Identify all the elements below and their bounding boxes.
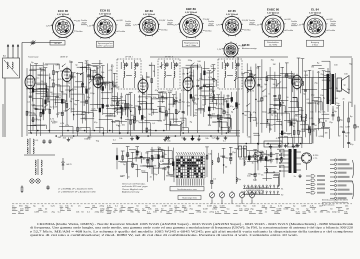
wire [212, 65, 214, 111]
svg-text:4,7k: 4,7k [104, 84, 108, 86]
svg-text:1k: 1k [28, 111, 30, 113]
resistor [97, 81, 99, 85]
svg-text:OA 70: OA 70 [66, 163, 72, 166]
wire [273, 176, 279, 178]
svg-text:Drehko: Drehko [81, 19, 87, 22]
bus wire [112, 143, 312, 145]
wire [195, 109, 204, 111]
switch contact [81, 72, 84, 75]
svg-text:220V~ gemessen: 220V~ gemessen [97, 45, 113, 47]
wire [45, 68, 47, 111]
wire [150, 149, 164, 151]
capacitor [312, 123, 315, 125]
svg-text:1M: 1M [273, 64, 276, 66]
wire [21, 43, 23, 138]
svg-text:10k: 10k [256, 68, 259, 70]
coil [212, 160, 213, 164]
wire [158, 148, 163, 150]
switch contact [67, 108, 70, 111]
svg-text:S1: S1 [281, 188, 283, 190]
ground [225, 136, 227, 138]
wire [116, 111, 122, 113]
electrolytic capacitor [82, 84, 84, 87]
wire [52, 65, 54, 110]
wire [325, 70, 330, 72]
svg-text:Drehko: Drehko [208, 20, 214, 23]
wire [291, 136, 302, 138]
wire [102, 97, 110, 99]
wire [130, 93, 132, 136]
wire [312, 100, 318, 102]
svg-text:1,2V: 1,2V [217, 49, 222, 51]
electrolytic capacitor [99, 76, 101, 79]
wire [140, 152, 142, 162]
svg-text:Drehko: Drehko [125, 20, 131, 23]
wire [79, 127, 90, 129]
svg-text:LT = NORMAL ZF = Bandbreite: LT = NORMAL ZF = Bandbreite 9 kHz [58, 188, 94, 191]
wire [162, 163, 174, 165]
wire [158, 148, 160, 174]
socket ECH 81 note box [97, 41, 114, 47]
node [246, 143, 248, 145]
svg-text:10k: 10k [247, 77, 250, 79]
resistor [220, 116, 222, 120]
wire [186, 64, 198, 66]
svg-text:2n: 2n [300, 117, 302, 119]
svg-text:10,7 MHz: 10,7 MHz [269, 44, 278, 46]
wire [93, 65, 97, 67]
wire [92, 62, 103, 64]
wire [253, 132, 259, 134]
wire [293, 97, 298, 99]
capacitor [46, 186, 49, 188]
wire [306, 129, 311, 131]
wire [225, 97, 231, 99]
resistor [217, 115, 219, 119]
capacitor [212, 78, 215, 80]
wire [284, 75, 295, 77]
wire [314, 97, 321, 99]
wire [266, 71, 268, 128]
wire [138, 101, 147, 103]
resistor [130, 120, 132, 124]
svg-text:Ant: Ant [3, 55, 6, 58]
wire [151, 62, 153, 116]
wire [111, 121, 127, 123]
wire [270, 147, 272, 163]
node [30, 132, 32, 134]
svg-text:LT = GEDRÜCKT ZF = Bandbreite: LT = GEDRÜCKT ZF = Bandbreite 5 kHz [58, 191, 97, 194]
ground [292, 144, 294, 146]
capacitor [165, 114, 168, 116]
wire [337, 106, 339, 136]
svg-text:Drehko: Drehko [205, 30, 212, 32]
svg-text:10k: 10k [119, 138, 122, 140]
resistor [53, 71, 55, 75]
svg-text:4,7k: 4,7k [110, 105, 114, 107]
wire [322, 88, 329, 90]
svg-text:943 MC: 943 MC [54, 43, 61, 45]
switch contact [117, 101, 120, 104]
wire [201, 90, 214, 92]
svg-text:EM 80: EM 80 [242, 43, 250, 47]
wire [182, 69, 184, 131]
resistor [132, 163, 134, 167]
wire [89, 78, 101, 80]
resistor [265, 157, 267, 161]
wire [61, 71, 63, 137]
wire [115, 107, 123, 109]
tube socket EF 89 [138, 15, 160, 37]
wire [276, 154, 278, 164]
wire [209, 116, 220, 118]
wire [31, 65, 43, 67]
switch column labels [177, 179, 178, 186]
wire [80, 67, 90, 69]
wire [117, 92, 119, 114]
wire [208, 71, 210, 125]
wire [165, 94, 167, 131]
wire [258, 66, 260, 143]
ground [164, 137, 166, 139]
wire [161, 92, 163, 103]
wire [139, 122, 151, 124]
capacitor [259, 156, 262, 158]
svg-text:280pF: 280pF [291, 24, 297, 26]
wire [321, 126, 330, 128]
wire [312, 70, 314, 143]
svg-text:4,7k: 4,7k [50, 119, 54, 121]
resistor [269, 109, 271, 113]
switch contact [181, 122, 184, 125]
resistor [151, 155, 153, 159]
wire [277, 148, 284, 150]
svg-text:1k: 1k [275, 115, 277, 117]
switch contact [160, 64, 163, 67]
wire [82, 112, 94, 114]
tube ECC85b [62, 68, 72, 81]
wire [36, 108, 50, 110]
wire [47, 86, 53, 88]
wire [147, 152, 149, 168]
capacitor [182, 111, 185, 113]
wire [223, 95, 225, 117]
wire [215, 108, 222, 110]
wire [42, 63, 44, 121]
wire [100, 81, 113, 83]
svg-text:gegen Chassis: gegen Chassis [322, 205, 335, 207]
svg-text:10k: 10k [328, 80, 331, 82]
electrolytic capacitor [260, 157, 262, 160]
wire [201, 79, 216, 81]
electrolytic capacitor [354, 125, 356, 128]
wire [281, 67, 283, 143]
wire [208, 115, 220, 117]
capacitor [175, 100, 178, 102]
wire [268, 112, 278, 114]
wire [2, 104, 4, 137]
switch contact [98, 83, 101, 86]
switch contact [212, 70, 215, 73]
capacitor [35, 108, 38, 110]
wire [322, 60, 331, 62]
socket ECC 85 note [50, 41, 65, 46]
svg-text:1,2V: 1,2V [133, 25, 138, 27]
wire [102, 66, 104, 115]
node [218, 130, 220, 132]
wire [272, 78, 277, 80]
svg-text:10k: 10k [61, 92, 64, 94]
wire [37, 74, 43, 76]
resistor [236, 103, 238, 107]
electrolytic capacitor [254, 173, 256, 176]
electrolytic capacitor [70, 75, 72, 78]
svg-text:4 Watt: 4 Watt [312, 43, 318, 46]
svg-text:Drehko: Drehko [330, 20, 336, 23]
resistor [66, 103, 68, 107]
wire [149, 64, 155, 66]
antenna terminals [7, 46, 9, 58]
capacitor [293, 82, 296, 84]
wire [270, 107, 276, 109]
wire [159, 93, 161, 120]
wire [266, 118, 280, 120]
wire [255, 64, 257, 121]
svg-text:0,5M: 0,5M [345, 133, 350, 135]
node [255, 99, 257, 101]
svg-text:1M: 1M [280, 137, 283, 139]
wire [4, 78, 6, 137]
resistor [122, 156, 124, 160]
wire [332, 109, 334, 121]
svg-text:2n: 2n [294, 176, 296, 178]
wire [94, 103, 102, 105]
wire [26, 68, 28, 136]
svg-text:2n: 2n [167, 172, 169, 174]
wire [311, 78, 313, 144]
node [40, 112, 42, 114]
capacitor [120, 106, 123, 108]
coil [318, 119, 319, 123]
svg-text:Chassis. Abgleich siehe: Chassis. Abgleich siehe [122, 188, 144, 191]
wire [99, 119, 113, 121]
wire [351, 58, 353, 107]
coil [247, 88, 248, 92]
coil [112, 81, 113, 85]
svg-text:1k: 1k [252, 162, 254, 164]
svg-text:meßsender 30% mod. gegen: meßsender 30% mod. gegen [122, 186, 149, 188]
electrolytic capacitor [261, 98, 263, 101]
resistor [218, 158, 220, 162]
loudspeaker [337, 78, 342, 91]
wire [160, 164, 171, 166]
ground [270, 144, 272, 146]
capacitor [146, 158, 149, 160]
wire [323, 71, 325, 138]
wire [153, 109, 158, 111]
wire [77, 66, 87, 68]
wire [290, 71, 292, 137]
svg-text:1M: 1M [346, 209, 349, 211]
wire [319, 118, 329, 120]
wire [139, 96, 152, 98]
wire [34, 89, 49, 91]
tube socket [223, 41, 240, 58]
wire [36, 93, 47, 95]
electrolytic capacitor block [239, 146, 242, 157]
wire [209, 96, 224, 98]
wire [140, 165, 153, 167]
svg-text:15k: 15k [322, 112, 325, 114]
wire [116, 148, 118, 170]
resistor [134, 119, 136, 123]
capacitor [161, 95, 164, 97]
svg-text:0,5M: 0,5M [158, 120, 163, 122]
wire [134, 94, 136, 131]
wire [264, 172, 280, 174]
resistor [141, 115, 143, 119]
wire [168, 103, 176, 105]
wire [169, 118, 178, 120]
resistor [323, 122, 325, 126]
coil [280, 102, 281, 106]
capacitor [222, 155, 225, 157]
node [49, 77, 51, 79]
svg-text:10k: 10k [289, 150, 292, 152]
wire [198, 107, 204, 109]
trimmer capacitor [32, 40, 34, 45]
svg-text:1M: 1M [187, 106, 190, 108]
wire [202, 68, 209, 70]
wire [293, 73, 295, 144]
wire [151, 111, 158, 113]
coil [305, 114, 306, 118]
svg-text:0,5M: 0,5M [301, 206, 306, 208]
wire [205, 95, 212, 97]
node [127, 132, 129, 134]
svg-text:0,5M: 0,5M [303, 120, 308, 122]
wire [288, 78, 292, 80]
switch contact [247, 103, 250, 106]
wire [111, 104, 122, 106]
wire [295, 114, 301, 116]
svg-text:10k: 10k [194, 115, 197, 117]
wire [161, 150, 172, 152]
svg-text:EL 84: EL 84 [311, 7, 319, 11]
svg-text:2n: 2n [41, 70, 43, 72]
ground [166, 136, 168, 138]
node [37, 130, 39, 132]
svg-text:ECC 85: ECC 85 [58, 9, 69, 13]
svg-text:0,5M: 0,5M [34, 212, 39, 214]
wire [161, 111, 166, 113]
capacitor [127, 107, 130, 109]
resistor [208, 107, 210, 111]
wire [76, 113, 85, 115]
wire [214, 99, 227, 101]
wire [135, 156, 150, 158]
capacitor [167, 166, 170, 168]
tube socket ECH 81 [93, 14, 118, 38]
wire [309, 70, 311, 143]
svg-text:10k: 10k [253, 120, 256, 122]
svg-text:0,5M: 0,5M [155, 155, 160, 157]
wire [285, 111, 300, 113]
wire [117, 108, 127, 110]
wire [38, 74, 48, 76]
svg-text:2n: 2n [314, 129, 316, 131]
svg-text:1k: 1k [213, 90, 215, 92]
svg-text:280pF: 280pF [125, 24, 131, 26]
wire [91, 110, 98, 112]
wire [280, 72, 293, 74]
wire [264, 165, 277, 167]
wire [220, 117, 230, 119]
capacitor [332, 114, 335, 116]
capacitor [229, 153, 232, 155]
capacitor [199, 87, 202, 89]
resistor [77, 127, 79, 131]
resistor [99, 108, 101, 112]
svg-text:UKW Ø: UKW Ø [60, 57, 68, 59]
capacitor [87, 74, 90, 76]
wire [276, 120, 282, 122]
wire [269, 67, 271, 131]
capacitor [273, 111, 276, 113]
svg-text:1k: 1k [336, 88, 338, 90]
wire [210, 107, 217, 109]
wire [224, 118, 232, 120]
resistor [231, 97, 233, 101]
resistor [86, 89, 88, 93]
wire [211, 150, 213, 189]
wire [260, 152, 262, 162]
wire [302, 89, 318, 91]
svg-text:1k: 1k [221, 127, 223, 129]
wire [182, 67, 192, 69]
resistor [40, 112, 42, 116]
node [217, 118, 219, 120]
wire [302, 59, 304, 144]
wire [41, 95, 56, 97]
resistor [190, 94, 192, 98]
svg-text:0,5M: 0,5M [120, 175, 125, 177]
wire [27, 125, 37, 127]
wire [139, 95, 141, 114]
svg-text:ZF Bfl. III: ZF Bfl. III [226, 57, 235, 59]
wire [111, 64, 113, 107]
svg-text:0,5M: 0,5M [53, 106, 58, 108]
wire [237, 57, 239, 150]
wire [75, 99, 80, 101]
wire [212, 121, 216, 123]
wire [273, 175, 279, 177]
ground [137, 136, 139, 138]
wire [87, 75, 94, 77]
wire [190, 66, 202, 68]
svg-text:2n: 2n [31, 85, 33, 87]
node [103, 132, 105, 134]
svg-text:2n: 2n [74, 89, 76, 91]
electrolytic capacitor [286, 74, 288, 77]
capacitor [347, 141, 350, 143]
switch contact [253, 74, 256, 77]
wire [158, 101, 165, 103]
ground [192, 136, 194, 138]
wire [248, 117, 256, 119]
svg-text:280pF: 280pF [249, 23, 255, 25]
wire [199, 95, 205, 97]
